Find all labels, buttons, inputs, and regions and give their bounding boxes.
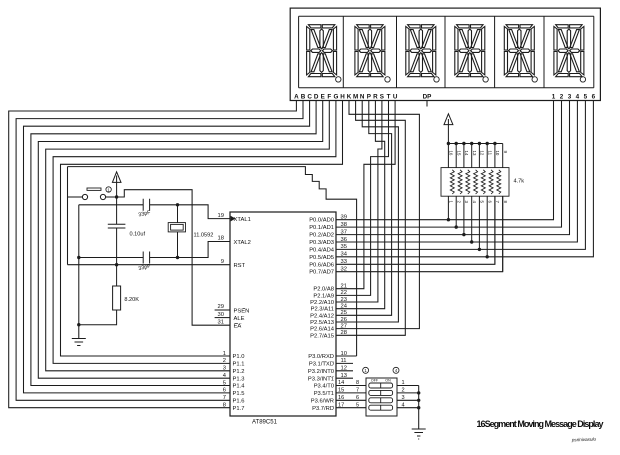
svg-text:S: S [380, 94, 384, 101]
svg-text:3: 3 [568, 94, 572, 101]
VCC power arrow above RN1 [444, 114, 453, 144]
svg-text:A: A [294, 94, 299, 101]
svg-text:3: 3 [402, 395, 405, 401]
svg-text:9: 9 [221, 259, 224, 265]
ALE pin 30 stub wire [215, 317, 230, 319]
svg-text:PSEN: PSEN [234, 308, 250, 314]
wire XTAL2 rail [79, 242, 230, 258]
svg-text:36: 36 [341, 237, 347, 243]
svg-text:18: 18 [218, 236, 224, 242]
P3.2 pin 12 stub wire [336, 370, 353, 372]
svg-text:D: D [314, 94, 319, 101]
wire segment T to P2.1 [336, 101, 389, 296]
svg-text:H: H [340, 94, 345, 101]
svg-text:1: 1 [402, 380, 405, 386]
decimal point digit 1 [336, 77, 341, 82]
16-segment digit 6 [554, 25, 584, 77]
C2 value label [138, 263, 152, 272]
junction dot RST node [115, 263, 118, 266]
display segment pin letters A-U and DP [294, 94, 431, 101]
svg-text:34: 34 [341, 252, 348, 258]
RN1 pin lead wires [448, 144, 502, 272]
C1 value label [138, 210, 152, 219]
svg-text:6: 6 [592, 94, 596, 101]
push button actuator mark [106, 187, 111, 193]
wire button right lead to VCC node [106, 196, 117, 198]
resistor network RN1 body [441, 168, 509, 197]
wire digit 5 to P0.4 [336, 101, 585, 250]
X1 value label 11.0592 [194, 233, 214, 239]
svg-text:13: 13 [472, 151, 477, 156]
svg-text:P0.7/AD7: P0.7/AD7 [309, 270, 334, 276]
svg-text:P1.5: P1.5 [233, 391, 245, 397]
wire digit 4 to P0.3 [336, 101, 577, 243]
U1 left pin numbers [218, 213, 227, 409]
svg-text:25: 25 [341, 310, 347, 316]
PSEN pin 29 stub wire [215, 309, 230, 311]
wire segment S to P2.2 [336, 101, 382, 303]
svg-text:G: G [333, 94, 338, 101]
wire segment N to P2.5 [336, 101, 398, 323]
svg-text:P2.7/A15: P2.7/A15 [310, 333, 334, 339]
svg-text:P1.7: P1.7 [233, 406, 245, 412]
svg-text:ON: ON [385, 379, 391, 383]
wire segment P to P2.4 [336, 101, 392, 316]
svg-text:ALE: ALE [234, 316, 245, 322]
junction dots on DIP ground riser [417, 391, 420, 409]
VCC power arrow at reset circuit [112, 172, 121, 197]
wire segment K to P2.6 [336, 101, 419, 329]
svg-text:N: N [360, 94, 365, 101]
svg-text:4: 4 [576, 94, 580, 101]
RN1 resistor zigzag elements [450, 170, 501, 194]
wire P3.7 to DIP switch pin 5 [336, 407, 366, 409]
wire segment E to P1.3 [38, 101, 322, 379]
svg-text:XTAL2: XTAL2 [234, 240, 251, 246]
svg-text:P2.1/A9: P2.1/A9 [313, 293, 334, 299]
svg-text:P3.7/RD: P3.7/RD [312, 406, 334, 412]
svg-text:10: 10 [495, 151, 500, 156]
svg-text:12: 12 [480, 151, 485, 156]
svg-text:P2.3/A11: P2.3/A11 [311, 307, 334, 313]
svg-text:21: 21 [341, 284, 347, 290]
svg-text:1: 1 [223, 351, 226, 357]
svg-text:P3.0/RXD: P3.0/RXD [308, 354, 334, 360]
decimal point digit 4 [483, 77, 488, 82]
wire segment B to P1.6 [16, 101, 303, 401]
svg-text:C: C [307, 94, 312, 101]
svg-text:P0.0/AD0: P0.0/AD0 [309, 218, 334, 224]
svg-text:6: 6 [223, 388, 226, 394]
wire segment F to P1.2 [46, 101, 330, 371]
wire RST net to U1 pin 9 [68, 264, 231, 266]
ground symbol (reset circuit) [72, 339, 86, 346]
svg-text:XTAL1: XTAL1 [234, 217, 251, 223]
svg-text:AT89C51: AT89C51 [252, 420, 278, 426]
C3 value label [130, 232, 146, 238]
svg-text:17: 17 [338, 402, 344, 408]
svg-text:16Segment Moving Message Displ: 16Segment Moving Message Display [477, 419, 604, 429]
svg-text:B: B [301, 94, 306, 101]
svg-text:14: 14 [464, 151, 469, 156]
svg-text:E: E [321, 94, 325, 101]
svg-text:T: T [387, 94, 391, 101]
capacitor C1 33pF [143, 199, 149, 211]
P3.1 pin 11 stub wire [336, 362, 353, 364]
svg-text:P3.4/T0: P3.4/T0 [314, 384, 334, 390]
svg-text:P2.2/A10: P2.2/A10 [310, 300, 334, 306]
svg-text:15: 15 [457, 151, 462, 156]
svg-text:27: 27 [341, 323, 347, 329]
display digit cell frame [299, 16, 594, 88]
svg-text:F: F [327, 94, 331, 101]
wire P0.7 to RN1 pin 8 [336, 196, 503, 272]
16-segment digit 1 [307, 25, 337, 77]
junction dot ground rail / R1 return [77, 323, 80, 326]
16-segment digit 3 [406, 25, 436, 77]
svg-text:31: 31 [218, 319, 224, 325]
svg-text:P1.4: P1.4 [233, 384, 246, 390]
svg-text:29: 29 [218, 304, 224, 310]
author signature [571, 437, 597, 443]
svg-text:1: 1 [552, 94, 556, 101]
svg-text:P3.1/TXD: P3.1/TXD [309, 362, 334, 368]
capacitor C2 33pF [143, 252, 149, 264]
decimal point digit 3 [434, 77, 439, 82]
wire P0.6 to RN1 pin 7 [336, 196, 495, 264]
wire DIP pin 4 to ground riser [397, 407, 419, 409]
svg-text:15: 15 [338, 388, 344, 394]
RN1 common bus wire [448, 143, 502, 145]
title text [477, 419, 604, 429]
wire digit 3 to P0.2 [336, 101, 570, 235]
svg-text:8: 8 [356, 380, 359, 386]
U1 right side pin names [308, 218, 335, 412]
svg-text:P1.6: P1.6 [233, 399, 245, 405]
DIP switch SW2 body [366, 378, 397, 416]
svg-text:14: 14 [338, 380, 344, 386]
svg-text:22: 22 [341, 290, 347, 296]
svg-text:U: U [393, 94, 398, 101]
RN1 bus junction dots [447, 142, 497, 145]
svg-text:P0.1/AD1: P0.1/AD1 [309, 225, 334, 231]
svg-text:6: 6 [356, 395, 359, 401]
crystal X1 11.0592MHz [168, 205, 185, 258]
R1 value label [124, 297, 139, 303]
node junction dot VCC/button/C3 [115, 195, 118, 198]
svg-text:P0.2/AD2: P0.2/AD2 [309, 233, 334, 239]
16-segment digit 4 [455, 25, 485, 77]
wire digit 6 to P0.5 [336, 101, 593, 257]
svg-text:P3.6/WR: P3.6/WR [311, 399, 334, 405]
junction dot XTAL1/crystal [176, 203, 179, 206]
DIP ground riser wire [418, 386, 420, 430]
svg-text:P1.3: P1.3 [233, 376, 245, 382]
RN1 pin number labels [449, 151, 508, 204]
svg-text:33: 33 [341, 259, 347, 265]
svg-text:DP: DP [423, 94, 432, 101]
svg-text:0.10uf: 0.10uf [130, 232, 146, 238]
svg-text:7: 7 [356, 388, 359, 394]
wire button left lead to reset vertical [68, 196, 83, 198]
U1 right pin numbers [341, 215, 348, 379]
svg-text:5: 5 [356, 402, 359, 408]
wire segment U to P2.0 [336, 101, 395, 289]
SW2 orientation marks [363, 367, 399, 373]
U1 reference label AT89C51 [252, 420, 278, 426]
svg-text:P3.2/INT0: P3.2/INT0 [308, 369, 334, 375]
wire segment A to P1.7 [9, 101, 297, 408]
wire digit 2 to P0.1 [336, 101, 562, 228]
wire reset net vertical [67, 167, 69, 265]
svg-text:P: P [367, 94, 371, 101]
svg-text:psrinivasulu: psrinivasulu [571, 437, 597, 443]
svg-text:32: 32 [341, 267, 347, 273]
decimal point digit 2 [385, 77, 390, 82]
decimal point digit 6 [580, 77, 585, 82]
svg-text:P2.6/A14: P2.6/A14 [310, 327, 335, 333]
svg-text:16: 16 [449, 151, 454, 156]
svg-text:P0.5/AD5: P0.5/AD5 [309, 255, 334, 261]
microcontroller U1 AT89C51 body [230, 212, 336, 416]
svg-text:39: 39 [341, 215, 347, 221]
wire DIP pin 3 to ground riser [397, 399, 419, 401]
svg-text:19: 19 [218, 213, 224, 219]
svg-text:K: K [347, 94, 352, 101]
svg-text:3: 3 [223, 366, 226, 372]
junction dot C2 rail on ground vertical [77, 256, 80, 259]
wire segment C to P1.5 [24, 101, 310, 393]
svg-text:OFF: OFF [371, 379, 379, 383]
DP pin stub (unconnected) [426, 101, 428, 107]
svg-text:M: M [353, 94, 358, 101]
junction dots RN1 pins on P0 lines [447, 218, 489, 259]
16-segment digit 5 [504, 25, 534, 77]
svg-text:28: 28 [341, 330, 347, 336]
svg-text:P1.1: P1.1 [233, 362, 245, 368]
svg-text:P0.3/AD3: P0.3/AD3 [309, 240, 334, 246]
svg-text:RST: RST [234, 263, 246, 269]
svg-text:P1.2: P1.2 [233, 369, 245, 375]
capacitor C3 0.10uF [108, 197, 126, 265]
wire segment R to P2.3 [336, 101, 385, 309]
svg-text:26: 26 [341, 317, 347, 323]
SW2 switch elements with OFF/ON labels [369, 379, 393, 411]
wire segment M to P2.7 [336, 101, 405, 336]
P3.3 pin 13 stub wire [336, 377, 353, 379]
svg-text:30: 30 [218, 312, 224, 318]
svg-text:P0.6/AD6: P0.6/AD6 [309, 262, 334, 268]
svg-text:38: 38 [341, 222, 347, 228]
resistor R1 8.2K [79, 265, 121, 325]
wire DIP pin 1 to ground riser [397, 385, 419, 387]
svg-text:23: 23 [341, 297, 347, 303]
wire digit 1 to P0.0 [336, 101, 554, 220]
svg-text:5: 5 [584, 94, 588, 101]
svg-text:4.7k: 4.7k [514, 179, 525, 185]
svg-text:P2.4/A12: P2.4/A12 [310, 313, 334, 319]
16-segment digit 2 [355, 25, 385, 77]
svg-text:2: 2 [402, 388, 405, 394]
svg-text:16: 16 [338, 395, 344, 401]
svg-text:P2.0/A8: P2.0/A8 [313, 287, 334, 293]
wire P3.4 to DIP switch pin 8 [336, 385, 366, 387]
DIP switch pin numbers [338, 380, 405, 408]
XTAL1 pin 19 clock input arrow [231, 216, 236, 222]
svg-text:P3.3/INT1: P3.3/INT1 [308, 376, 334, 382]
svg-text:8: 8 [223, 403, 226, 409]
svg-text:P1.0: P1.0 [233, 354, 245, 360]
svg-text:35: 35 [341, 244, 347, 250]
svg-text:24: 24 [341, 303, 348, 309]
P3.0 pin 10 wire to staircase tail [336, 355, 357, 357]
svg-text:P0.4/AD4: P0.4/AD4 [309, 247, 335, 253]
wire XTAL1 rail [79, 205, 230, 219]
decimal point digit 5 [532, 77, 537, 82]
U1 left side pin names [233, 217, 251, 412]
svg-text:2: 2 [223, 358, 226, 364]
svg-text:R: R [373, 94, 378, 101]
wire segment D to P1.4 [31, 101, 316, 386]
ground vertical wire [78, 205, 80, 339]
svg-text:2: 2 [560, 94, 564, 101]
svg-text:P3.5/T1: P3.5/T1 [314, 391, 334, 397]
wire VCC node to EA rail [117, 190, 230, 326]
wire EA staircase rail [68, 167, 357, 356]
wire DIP pin 2 to ground riser [397, 392, 419, 394]
RN1 value label 4.7k [514, 179, 525, 185]
svg-text:7: 7 [223, 395, 226, 401]
svg-text:5: 5 [223, 380, 226, 386]
wire P3.6 to DIP switch pin 6 [336, 399, 366, 401]
wire segment G to P1.1 [53, 101, 336, 364]
svg-text:11.0592: 11.0592 [194, 233, 214, 239]
wire P3.5 to DIP switch pin 7 [336, 392, 366, 394]
display module U2 outline [290, 8, 600, 100]
wire segment H to P1.0 [61, 101, 343, 357]
svg-text:4: 4 [402, 402, 405, 408]
junction dot XTAL2/crystal [176, 256, 179, 259]
svg-text:EA: EA [234, 323, 242, 329]
svg-text:P2.5/A13: P2.5/A13 [310, 320, 334, 326]
ground symbol (DIP switch) [412, 429, 426, 439]
svg-text:8.20K: 8.20K [124, 297, 139, 303]
display digit select pin numbers 1-6 [552, 94, 596, 101]
push button SW1 (reset) [82, 188, 105, 200]
svg-text:37: 37 [341, 229, 347, 235]
svg-text:11: 11 [488, 151, 493, 156]
